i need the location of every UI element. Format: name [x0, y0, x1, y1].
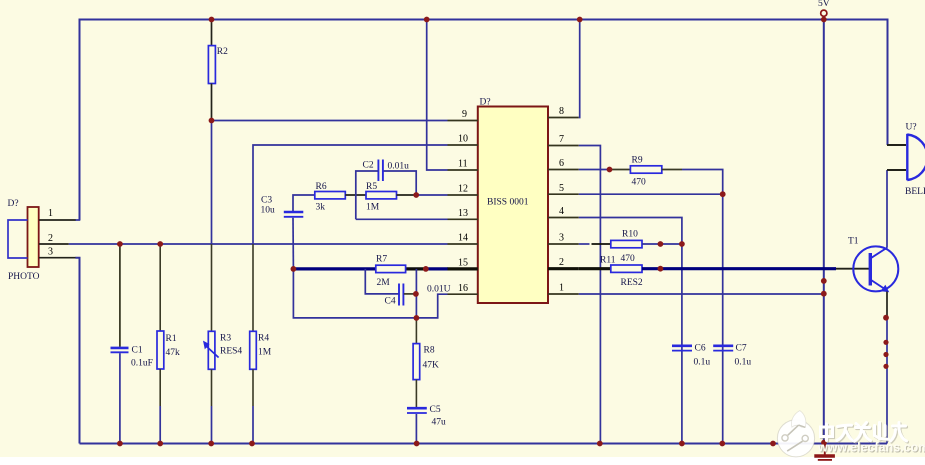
node pin3 b [679, 241, 685, 247]
wire pin5 row [579, 193, 723, 195]
svg-text:C7: C7 [736, 344, 747, 354]
pin 1 of photo [39, 208, 80, 220]
node pin6 [607, 167, 613, 173]
svg-text:C5: C5 [430, 405, 441, 415]
svg-text:R10: R10 [622, 230, 638, 240]
svg-text:C4: C4 [385, 297, 396, 307]
svg-text:3: 3 [559, 233, 564, 244]
wire R10 right to C6 column [642, 243, 682, 245]
wire photo pin3 down to bottom rail [76, 258, 80, 444]
svg-text:R1: R1 [166, 334, 177, 344]
node pin2 R11 [658, 266, 664, 272]
svg-text:C3: C3 [261, 196, 272, 206]
wire pin3 row to R10 [579, 243, 611, 245]
pin 14 [448, 233, 478, 245]
pin 13 [448, 208, 478, 219]
svg-text:C2: C2 [363, 161, 374, 171]
svg-text:0.01U: 0.01U [427, 285, 451, 295]
wire bottom rail [80, 443, 888, 445]
resistor R4 [250, 331, 272, 443]
node top rail power [821, 17, 827, 23]
svg-text:2: 2 [559, 257, 564, 268]
svg-text:5: 5 [559, 183, 564, 194]
watermark logo [777, 411, 814, 457]
svg-text:4: 4 [559, 206, 564, 217]
svg-text:16: 16 [458, 283, 468, 294]
svg-text:47K: 47K [423, 361, 440, 371]
resistor R6 [315, 182, 346, 213]
node R2 bottom [209, 118, 215, 124]
resistor R2 [208, 20, 228, 121]
pin 1 [548, 283, 579, 295]
pin 6 [548, 158, 579, 170]
resistor R1 [157, 244, 180, 444]
node rail R1 [157, 441, 163, 447]
svg-text:R2: R2 [217, 47, 228, 57]
node top rail pin11 [424, 17, 430, 23]
resistor R9 [630, 156, 661, 188]
svg-text:R5: R5 [366, 182, 377, 192]
svg-text:BISS 0001: BISS 0001 [487, 198, 529, 208]
wire vertical from thick row down through C4 node to row y318 [415, 269, 417, 318]
wire pin4 row and vertical down to bottom rail (C6 column) [579, 218, 682, 444]
node rail ground [821, 440, 827, 446]
op-amp IC U1 BISS 0001 body [478, 98, 548, 304]
svg-text:9: 9 [462, 109, 467, 120]
wire pin1 row to power vertical [579, 293, 824, 295]
wire pin2 thick row to R11 [579, 267, 611, 270]
wire pin10 row and down to R4 [253, 145, 448, 244]
svg-text:470: 470 [632, 178, 647, 188]
svg-text:C6: C6 [695, 344, 706, 354]
wire thick pin15 row [293, 267, 448, 270]
wire pin13 row [356, 218, 448, 220]
node emitter d [883, 364, 888, 369]
svg-text:12: 12 [458, 184, 468, 195]
pin 4 [548, 206, 579, 218]
pin 15 [448, 258, 478, 269]
svg-text:U?: U? [906, 123, 917, 133]
node power vert a [821, 278, 827, 284]
node emitter b [883, 340, 888, 345]
svg-text:1M: 1M [258, 348, 272, 358]
wire pin14 row from photo pin2 to IC [69, 243, 448, 245]
node pin14 C1 [117, 241, 123, 247]
svg-text:10: 10 [458, 134, 468, 145]
node rail R3 [208, 441, 214, 447]
svg-text:8: 8 [559, 106, 564, 117]
svg-text:R7: R7 [376, 255, 387, 265]
capacitor C4 branch [365, 269, 416, 307]
resistor R10 [611, 230, 642, 265]
svg-text:2: 2 [48, 233, 53, 244]
svg-text:www.elecfans.com: www.elecfans.com [817, 441, 925, 455]
wire pin6 row to R9 [579, 169, 631, 171]
pin 12 [448, 184, 478, 196]
ground [814, 444, 835, 460]
capacitor C7 [713, 344, 751, 368]
svg-text:0.1u: 0.1u [694, 358, 711, 368]
wire photo left bracket [8, 220, 28, 258]
pin 8 [548, 106, 579, 118]
pin 3 of photo [39, 247, 76, 258]
svg-text:R9: R9 [632, 156, 643, 166]
node pin14 R1 [157, 241, 163, 247]
wire thick from R11 to transistor base [642, 267, 869, 270]
node C3 bottom row [414, 315, 420, 321]
node rail C7 col [719, 441, 725, 447]
resistor R7 [376, 255, 406, 289]
svg-text:470: 470 [621, 254, 636, 264]
svg-text:11: 11 [458, 159, 468, 170]
wire C3 bottom to row y318 [293, 269, 416, 318]
svg-text:D?: D? [8, 199, 19, 209]
wire R9 right, corner down to bottom rail (C7 column) [662, 170, 723, 444]
pin 16 [448, 283, 478, 294]
wire R2 bottom down to R3 [211, 121, 213, 245]
pin 10 [448, 134, 478, 146]
node top rail pin8 [577, 17, 583, 23]
svg-text:14: 14 [458, 233, 468, 244]
svg-text:R3: R3 [220, 334, 231, 344]
watermark url text [817, 441, 925, 456]
svg-text:15: 15 [458, 258, 468, 269]
transistor T1 [848, 237, 898, 293]
photo sensor D? body [8, 199, 40, 282]
svg-text:1M: 1M [366, 203, 380, 213]
svg-text:0.01u: 0.01u [388, 162, 410, 172]
node C4 right [413, 291, 419, 297]
resistor R8 [413, 318, 439, 407]
node pin3 a [658, 241, 664, 247]
pin 5 [548, 183, 579, 194]
node rail pin7 col [597, 441, 603, 447]
svg-text:RES4: RES4 [220, 347, 242, 357]
resistor R5 [366, 182, 397, 213]
pin 11 [448, 159, 478, 171]
pin 2 [548, 257, 579, 269]
node emitter c [883, 352, 888, 357]
svg-text:7: 7 [559, 134, 564, 145]
watermark chinese text (white layer) [821, 423, 907, 442]
svg-text:D?: D? [480, 98, 491, 108]
svg-text:13: 13 [458, 208, 468, 219]
wire collector up to bell [886, 170, 888, 248]
wire pin9 row from R2 bottom to IC [212, 120, 448, 122]
wire pin11 vertical from top rail [427, 20, 448, 171]
wire emitter down to bottom rail [886, 292, 888, 444]
svg-text:R8: R8 [424, 346, 435, 356]
pin 7 [548, 134, 579, 146]
svg-text:2M: 2M [377, 278, 391, 288]
svg-text:R6: R6 [316, 182, 327, 192]
svg-text:1: 1 [48, 208, 53, 219]
node rail C1 [117, 441, 123, 447]
svg-text:R4: R4 [258, 334, 269, 344]
capacitor C6 [672, 344, 710, 368]
node thick row right of R7 [423, 266, 429, 272]
pin 3 [548, 233, 579, 245]
power port 5V [818, 0, 830, 16]
node rail R4 [249, 441, 255, 447]
svg-text:PHOTO: PHOTO [8, 272, 40, 282]
capacitor C2 with loop to pin13 [356, 160, 416, 220]
node pin5 C7 col [720, 191, 726, 197]
svg-text:10u: 10u [261, 206, 276, 216]
svg-text:1: 1 [559, 283, 564, 294]
svg-text:0.1u: 0.1u [735, 358, 752, 368]
wire top rail with left and right verticals [80, 20, 888, 221]
svg-text:47u: 47u [432, 418, 447, 428]
node power vert pin1 [821, 291, 827, 297]
wire pin7 to long vertical down to bottom rail [579, 146, 601, 444]
svg-text:R11: R11 [600, 256, 616, 266]
svg-text:3: 3 [48, 247, 53, 258]
capacitor C1 [111, 244, 153, 444]
node thick row left [291, 266, 297, 272]
svg-text:T1: T1 [848, 237, 859, 247]
wire pin8 up to top rail [578, 20, 581, 118]
wire R5 right to pin12 node and to IC [397, 194, 448, 196]
svg-text:3k: 3k [316, 203, 326, 213]
resistor R3 (RES4 adjustable) [203, 331, 242, 443]
capacitor C5 [407, 405, 446, 444]
svg-text:RES2: RES2 [621, 278, 643, 288]
svg-text:5V: 5V [818, 0, 830, 9]
resistor R11 (RES2) [600, 256, 643, 289]
watermark chinese text (shadow layer) [822, 424, 908, 443]
svg-text:6: 6 [559, 158, 564, 169]
capacitor C3 [261, 195, 315, 269]
node rail C5 [414, 441, 420, 447]
svg-text:C1: C1 [132, 346, 143, 356]
wire power vertical [823, 20, 825, 444]
svg-text:47k: 47k [166, 348, 181, 358]
wire between R6 and R5 [345, 194, 366, 196]
wire row y318 to pin16 of IC [416, 294, 447, 318]
node rail C6 col [679, 441, 685, 447]
node emitter [883, 315, 889, 321]
node rail stray [770, 441, 776, 447]
node pin12 [413, 192, 419, 198]
pin 9 [448, 109, 478, 121]
svg-text:BELL: BELL [905, 187, 925, 197]
bell U? [887, 123, 925, 198]
svg-text:0.1uF: 0.1uF [131, 359, 153, 369]
node top rail R2 [209, 17, 215, 23]
pin 2 of photo [39, 233, 69, 244]
